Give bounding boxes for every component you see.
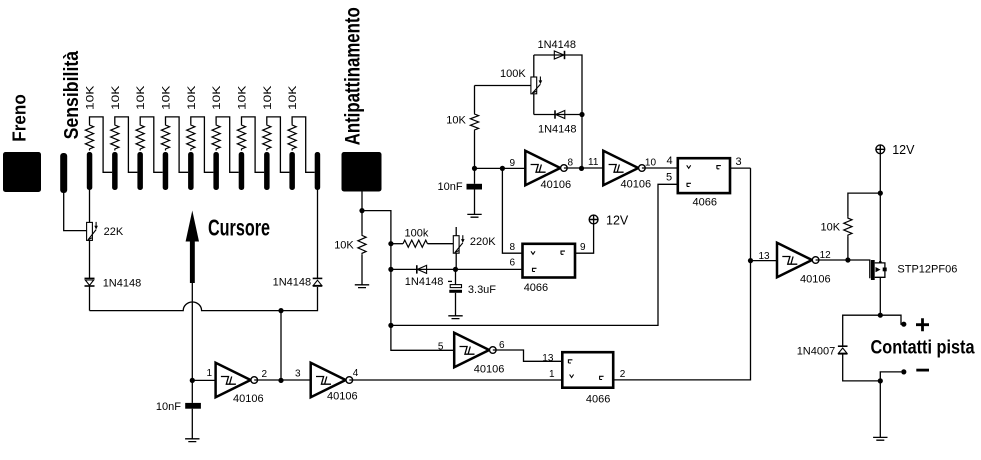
wire node to right branch [362, 211, 391, 326]
wire U1B out to 4066 U3A pin1 (long) [349, 379, 562, 381]
anti-skid contact pad (black square) [342, 152, 382, 192]
svg-text:4066: 4066 [693, 197, 717, 209]
wire link R8 top to bar 9 [267, 117, 290, 172]
inverter U1B 40106 [311, 363, 346, 397]
wire into inverter U1D pin 9 [475, 167, 526, 169]
wire 12V down to MOSFET [879, 154, 881, 263]
resistor R1 10K [85, 124, 93, 151]
contact strip bar 8 [264, 152, 270, 190]
trimmer P3 100K [533, 55, 535, 115]
contact strip bar 1 [87, 152, 93, 190]
ground under C3 [467, 214, 481, 217]
diode D3 1N4148 [416, 265, 418, 273]
wire loop to U1D/U1E net [581, 115, 583, 169]
diode D6 1N4007 [838, 345, 848, 347]
wire link R2 top to bar 3 [115, 117, 138, 172]
svg-text:9: 9 [510, 158, 516, 169]
svg-text:Antipattinamento: Antipattinamento [342, 7, 365, 145]
svg-text:1: 1 [207, 368, 213, 379]
svg-text:40106: 40106 [800, 274, 831, 286]
svg-text:1N4007: 1N4007 [797, 346, 836, 358]
svg-text:10nF: 10nF [156, 401, 181, 413]
wire U1C out to 4066 U3A pin13 [493, 350, 563, 361]
svg-text:5: 5 [666, 172, 672, 184]
wire diode loop bottom [534, 114, 582, 116]
inverter U1D 40106 [525, 151, 560, 185]
resistor R11 100k [391, 243, 403, 245]
wire pin6 net [391, 268, 523, 270]
ground under C2 [448, 316, 462, 319]
ground under R10 [355, 285, 369, 288]
svg-text:1N4148: 1N4148 [538, 39, 577, 51]
node diode branch [388, 267, 393, 272]
wire to + terminal [880, 315, 901, 324]
svg-text:8: 8 [568, 158, 574, 169]
trimmer P2 220K [455, 227, 457, 236]
resistor R13 10K [847, 237, 849, 260]
svg-text:1: 1 [549, 369, 555, 380]
resistor R10 10K pulldown [361, 211, 363, 234]
ground (output) [873, 437, 887, 440]
svg-text:22K: 22K [104, 226, 124, 238]
bottom rail wire with crossover hop [90, 287, 318, 311]
inverter U1E 40106 [603, 151, 638, 185]
wire link R7 top to bar 8 [242, 117, 265, 172]
4066 switch U3A box [562, 352, 613, 388]
node antipattinamento [359, 208, 364, 213]
op inverter U1A 40106 [216, 363, 251, 397]
svg-text:10K: 10K [262, 85, 274, 110]
node 12V/R13 [878, 191, 883, 196]
minus symbol [916, 369, 929, 372]
wire bar1 to trimmer P1 top [89, 190, 91, 223]
terminal dot - [901, 369, 906, 374]
transistor Q1 STP12PF06 P-MOSFET [871, 260, 875, 280]
node pin13 branch [748, 258, 753, 263]
wire link R5 top to bar 6 [191, 117, 214, 172]
resistor R6 10K [212, 124, 220, 151]
contact strip bar 4 [163, 152, 169, 190]
svg-text:5: 5 [438, 342, 444, 353]
node gate/R13 [845, 257, 850, 262]
svg-text:10nF: 10nF [438, 181, 463, 193]
node mid rail [388, 323, 393, 328]
svg-text:8: 8 [510, 242, 516, 253]
wire link R1 top to bar 2 [90, 117, 113, 172]
resistor R4 10K [161, 124, 169, 151]
label Sensibilita (vertical) [60, 50, 83, 139]
svg-text:13: 13 [542, 353, 554, 364]
label 10K of R4 [161, 85, 173, 110]
diode D4 1N4148 (top, right-pointing) [554, 51, 564, 59]
wire mid rail to 4066 U3B pin5 riser [391, 184, 678, 325]
svg-text:100K: 100K [500, 68, 526, 80]
svg-text:10K: 10K [186, 85, 198, 110]
svg-text:1N4148: 1N4148 [273, 277, 312, 289]
resistor R9 10K [288, 124, 296, 151]
svg-text:10K: 10K [446, 115, 466, 127]
wire link R3 top to bar 4 [140, 117, 163, 172]
wire U1F out to MOSFET gate [816, 260, 870, 278]
svg-text:40106: 40106 [233, 393, 264, 405]
capacitor C3 10nF [474, 168, 476, 183]
12V supply symbol (right) [876, 145, 885, 154]
wire to diode D6 [843, 315, 881, 346]
node pin8 branch of U3C [500, 166, 505, 171]
node 3.3uF top [453, 267, 458, 272]
svg-text:10K: 10K [211, 85, 223, 110]
brake contact pad (black square) [3, 152, 41, 192]
label 10K of R8 [262, 85, 274, 110]
Cursore arrow (wiper) [186, 211, 199, 242]
svg-text:4: 4 [353, 368, 359, 379]
sensitivity contact strip [60, 153, 67, 193]
wire link R6 top to bar 7 [216, 117, 239, 172]
svg-text:40106: 40106 [621, 179, 652, 191]
label Freno (vertical) [8, 94, 29, 142]
plus symbol [916, 318, 929, 331]
svg-text:2: 2 [262, 369, 268, 380]
node + branch [878, 313, 883, 318]
svg-text:40106: 40106 [474, 364, 505, 376]
svg-text:10K: 10K [135, 85, 147, 110]
svg-text:6: 6 [510, 258, 516, 269]
wire branch to inverter U1C [391, 325, 454, 350]
diode D1 1N4148 [85, 277, 95, 279]
wire U1E out to 4066 U3B pin4 [642, 167, 678, 169]
svg-text:10K: 10K [161, 85, 173, 110]
svg-text:12V: 12V [892, 143, 915, 157]
wire cursor arrow down to inverter U1A input [191, 283, 193, 380]
wire U3A pin2 to right riser [613, 168, 750, 380]
svg-text:220K: 220K [470, 236, 496, 248]
svg-text:10K: 10K [237, 85, 249, 110]
svg-text:Freno: Freno [8, 94, 29, 142]
node loop bottom-right [579, 112, 584, 117]
svg-text:10K: 10K [821, 222, 841, 234]
wire MOSFET drain down [879, 277, 881, 315]
wire link R4 top to bar 5 [166, 117, 189, 172]
4066 switch U3C box [523, 244, 576, 278]
wire wiper of P3 to R12 [475, 85, 532, 87]
resistor R5 10K [187, 124, 195, 151]
wire U1A out to U1B in [254, 379, 311, 381]
wire diode loop top [534, 55, 582, 115]
contact strip bar 2 [112, 152, 118, 190]
contact strip bar 6 [213, 152, 219, 190]
svg-text:2: 2 [620, 369, 626, 380]
contact strip bar 9 [289, 152, 295, 190]
wire D1 down to bottom rail [89, 286, 91, 311]
svg-text:1N4148: 1N4148 [538, 124, 577, 136]
wire bar10 to D2 [317, 190, 319, 279]
svg-text:3: 3 [736, 156, 742, 168]
wire U3C pin9 to 12V [575, 224, 594, 254]
capacitor C1 10nF [191, 380, 193, 403]
label 10K of R7 [237, 85, 249, 110]
4066 switch U3B box [678, 158, 730, 193]
svg-text:10K: 10K [334, 240, 354, 252]
svg-text:10K: 10K [287, 85, 299, 110]
node - branch [878, 378, 883, 383]
wire U3B pin3 to riser [730, 167, 751, 169]
svg-text:3: 3 [295, 369, 301, 380]
diode D5 1N4148 (bottom, left-pointing) [554, 110, 556, 118]
inverter U1C 40106 [454, 333, 489, 367]
svg-text:Cursore: Cursore [208, 215, 270, 241]
label 10K of R1 [85, 85, 97, 110]
wire U1D out to U1E in [564, 167, 603, 169]
resistor R8 10K [263, 124, 271, 151]
svg-text:10: 10 [645, 158, 657, 169]
label 10K of R3 [135, 85, 147, 110]
svg-text:4066: 4066 [586, 394, 610, 406]
resistor R7 10K [237, 124, 245, 151]
svg-text:1N4148: 1N4148 [405, 276, 444, 288]
svg-text:10K: 10K [85, 85, 97, 110]
svg-text:13: 13 [759, 251, 771, 262]
svg-text:10K: 10K [110, 85, 122, 110]
svg-text:40106: 40106 [541, 179, 572, 191]
wire riser to inverter U1F pin13 [751, 260, 778, 262]
wire - node to ground [879, 381, 881, 437]
wire to - terminal [880, 372, 901, 381]
label 10K of R2 [110, 85, 122, 110]
terminal dot + [901, 322, 906, 327]
ground under C1 [185, 439, 199, 442]
wire into U1A [192, 379, 215, 381]
svg-text:Contatti pista: Contatti pista [871, 338, 975, 359]
diode D2 1N4148 (right end of ladder) [313, 277, 323, 279]
12V supply symbol (middle) [589, 215, 598, 224]
label 10K of R6 [211, 85, 223, 110]
wire link R9 top to bar 10 [292, 117, 315, 172]
wire D6 down to - node [843, 354, 881, 381]
label minus of C2 [448, 280, 452, 282]
svg-text:4: 4 [667, 155, 673, 167]
wire P1 to diode D1 [89, 240, 91, 278]
contact strip bar 3 [137, 152, 143, 190]
svg-text:12V: 12V [606, 214, 629, 228]
svg-text:4066: 4066 [524, 282, 548, 294]
svg-text:40106: 40106 [327, 391, 358, 403]
inverter U1F 40106 [777, 243, 812, 277]
wire rail branch down to U1A-U1B net [280, 311, 282, 381]
node junction on bottom rail [278, 308, 283, 313]
wire to 4066 U3C pin8 [502, 168, 522, 253]
resistor R12 10K [474, 86, 476, 113]
label 10K of R9 [287, 85, 299, 110]
node 100k branch [388, 241, 393, 246]
svg-text:11: 11 [588, 157, 599, 168]
svg-text:9: 9 [580, 242, 586, 253]
capacitor C2 3.3uF electrolytic [455, 269, 457, 284]
resistor R3 10K [136, 124, 144, 151]
label Antipattinamento (vertical) [342, 7, 365, 145]
label 10K of R5 [186, 85, 198, 110]
node cursor/input junction [190, 378, 195, 383]
svg-text:STP12PF06: STP12PF06 [897, 264, 957, 276]
svg-text:100k: 100k [405, 228, 429, 240]
contact strip bar 10 [315, 152, 321, 190]
contact strip bar 5 [188, 152, 194, 190]
resistor R2 10K [111, 124, 119, 151]
svg-text:1N4148: 1N4148 [103, 278, 142, 290]
wire pad down to node [361, 192, 363, 211]
wire sensitivity strip to trimmer P1 [64, 193, 87, 231]
contact strip bar 7 [239, 152, 245, 190]
node R12/C3 [472, 166, 477, 171]
trimmer P1 22K [87, 222, 93, 240]
svg-text:3.3uF: 3.3uF [468, 284, 496, 296]
svg-text:Sensibilità: Sensibilità [60, 50, 83, 139]
